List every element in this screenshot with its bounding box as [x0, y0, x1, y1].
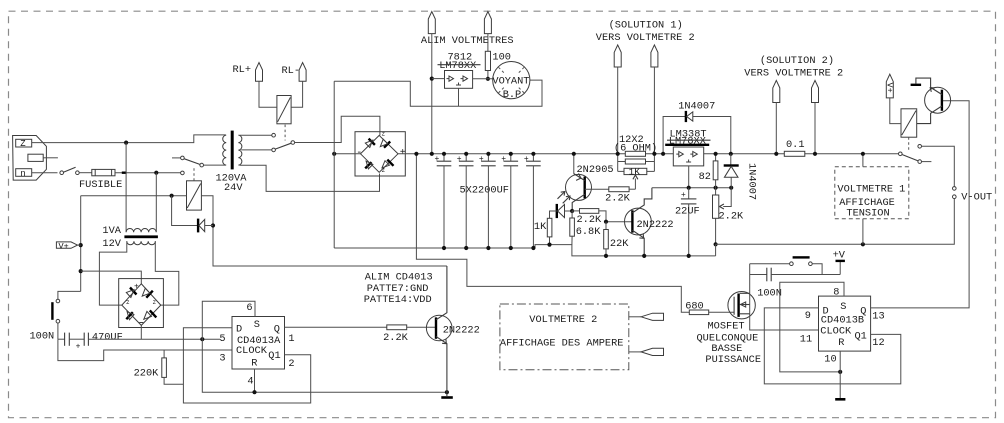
svg-text:+: + [479, 155, 484, 164]
svg-text:2N2905: 2N2905 [577, 164, 614, 176]
svg-text:470UF: 470UF [92, 331, 123, 343]
svg-text:CLOCK: CLOCK [236, 345, 268, 357]
svg-text:Z: Z [20, 139, 26, 149]
bridge rectifier BR1 [355, 130, 406, 176]
svg-text:TENSION: TENSION [846, 208, 889, 220]
svg-text:VOLTMETRE 2: VOLTMETRE 2 [529, 314, 597, 326]
svg-text:11: 11 [800, 333, 812, 345]
relay contact K2a [272, 133, 295, 151]
svg-text:220K: 220K [134, 368, 160, 380]
power tag +V [833, 250, 846, 275]
resistor 220K [134, 350, 184, 384]
svg-text:2.2K: 2.2K [383, 332, 409, 344]
svg-text:S: S [840, 301, 846, 313]
wire secondary bottom tap to bridge [240, 165, 380, 191]
svg-text:5X2200UF: 5X2200UF [460, 184, 509, 196]
svg-text:PUISSANCE: PUISSANCE [705, 354, 761, 366]
svg-text:13: 13 [872, 310, 884, 322]
svg-text:FUSIBLE: FUSIBLE [79, 179, 122, 191]
transistor Q1 2N2905 [566, 152, 614, 211]
capacitor C1 2200UF [435, 152, 452, 250]
wire secondary mid tap [241, 149, 272, 151]
wire relay coil right [201, 196, 447, 266]
svg-text:9: 9 [805, 310, 811, 322]
resistor 2.2K base Q5 [383, 325, 436, 344]
capacitor C5 2200UF [524, 152, 541, 250]
tag solution2 arrow a [773, 80, 780, 155]
svg-text:ALIM CD4013: ALIM CD4013 [365, 272, 433, 284]
svg-text:+: + [76, 343, 81, 352]
resistor 22K [604, 222, 630, 258]
svg-text:z: z [382, 130, 386, 137]
push button S2 [52, 291, 80, 339]
wire U1 D feedback [183, 328, 310, 403]
svg-text:(SOLUTION 2): (SOLUTION 2) [760, 55, 834, 67]
svg-text:2.2K: 2.2K [577, 214, 603, 226]
node line ADJ [652, 187, 731, 189]
relay coil K3 [901, 109, 917, 152]
transistor Q5 2N2222 [426, 266, 479, 396]
potentiometer 1K [618, 167, 655, 190]
resistor 2.2K to Q2 base [572, 209, 632, 227]
svg-text:10: 10 [824, 353, 836, 365]
diode D1 flyback [172, 196, 213, 233]
svg-text:2.2K: 2.2K [605, 192, 631, 204]
transistor Q4 MOSFET [697, 292, 762, 366]
svg-text:22UF: 22UF [675, 205, 700, 217]
push button S3 [750, 256, 822, 274]
wire vout minus line [716, 199, 955, 245]
svg-text:1VA: 1VA [102, 225, 121, 237]
wire mosfet vertical and clock pin11 [750, 264, 819, 330]
relay coil K2 RL [277, 96, 291, 124]
svg-text:0.1: 0.1 [786, 139, 805, 151]
relay contact K3a output switch [899, 145, 955, 187]
svg-text:ALIM VOLTMETRES: ALIM VOLTMETRES [421, 35, 514, 47]
tag alim arrow 2 [484, 12, 491, 52]
svg-text:6: 6 [246, 302, 252, 314]
text alim cd4013 [364, 272, 433, 307]
terminal V-OUT minus [953, 195, 957, 199]
svg-text:PATTE14:VDD: PATTE14:VDD [364, 294, 432, 306]
svg-text:Q1: Q1 [855, 331, 867, 343]
wire contact common to bridge top [295, 116, 380, 142]
svg-text:z: z [382, 167, 386, 174]
wire main plus rail [398, 153, 673, 155]
wire gate feed from rail [416, 154, 689, 312]
bridge rectifier BR2 [119, 279, 164, 328]
svg-text:8: 8 [833, 286, 839, 298]
svg-text:VOYANT: VOYANT [492, 76, 529, 88]
wire to fuse [79, 172, 92, 174]
potentiometer 2.2K adj [713, 188, 745, 256]
svg-text:+: + [524, 155, 529, 164]
tag voltmeter2 arrow b [629, 348, 664, 355]
wire U4 D feedback pin9 pin12 [764, 308, 901, 384]
capacitor C4 2200UF [501, 152, 518, 250]
svg-text:V-OUT: V-OUT [961, 192, 992, 204]
wire live from plug [32, 135, 226, 143]
svg-text:4: 4 [247, 375, 253, 387]
wire fuse to relay contact [115, 172, 181, 174]
svg-text:AFFICHAGE DES AMPERE: AFFICHAGE DES AMPERE [500, 337, 624, 349]
tag V+ output [884, 74, 901, 123]
svg-text:100N: 100N [30, 331, 55, 343]
capacitor C3 2200UF [479, 152, 496, 250]
resistor 1K led [534, 218, 552, 246]
wire relay coil left [81, 195, 187, 197]
svg-text:2N2222: 2N2222 [637, 219, 674, 231]
tag V+ [56, 241, 80, 251]
svg-text:n: n [20, 169, 25, 179]
svg-text:z: z [153, 299, 157, 306]
transistor Q6 pass [916, 78, 951, 124]
wire main ground rail [334, 245, 715, 256]
svg-text:VERS VOLTMETRE 2: VERS VOLTMETRE 2 [596, 32, 695, 44]
wire U1 set pin6 [202, 301, 447, 392]
LED D2 [550, 192, 575, 219]
svg-text:V+: V+ [59, 241, 69, 251]
node live/1VA junction [124, 141, 128, 145]
svg-text:MOSFET: MOSFET [708, 321, 745, 333]
wire U4 Q pin13 to base [871, 101, 970, 308]
lamp VOYANT B.P [492, 62, 529, 102]
regulator U3 LM338T [665, 128, 710, 187]
mains plug J1 [13, 136, 58, 181]
wire U1 reset pin4 [254, 369, 256, 392]
capacitor bank 5X2200UF [460, 184, 509, 196]
svg-text:RL+: RL+ [233, 64, 252, 76]
svg-text:Q: Q [274, 324, 280, 336]
capacitor C2 2200UF [457, 152, 474, 250]
diode D3 1N4007 bypass [661, 101, 733, 156]
svg-text:22K: 22K [610, 238, 629, 250]
svg-text:R: R [251, 357, 257, 369]
wire gnd net vertical and lamp return [333, 81, 335, 248]
svg-text:+: + [134, 283, 139, 292]
svg-text:12: 12 [872, 337, 884, 349]
svg-text:82: 82 [699, 171, 711, 183]
wire T2 secondary right to bridge2 [155, 241, 179, 305]
svg-text:1: 1 [288, 333, 294, 345]
svg-text:VERS VOLTMETRE 2: VERS VOLTMETRE 2 [744, 67, 843, 79]
ground U4 [835, 398, 845, 401]
ground Q5 [441, 396, 453, 399]
wire V+ vertical [80, 196, 82, 292]
tag solution1 arrow a [614, 45, 621, 154]
svg-text:Q1: Q1 [268, 350, 280, 362]
svg-text:+: + [501, 155, 506, 164]
svg-text:z: z [126, 299, 130, 306]
svg-text:VOLTMETRE 1: VOLTMETRE 1 [837, 183, 905, 195]
svg-text:2: 2 [288, 358, 294, 370]
svg-text:680: 680 [685, 301, 704, 313]
tag voltmeter2 arrow a [629, 313, 664, 320]
flip-flop U4 CD4013B [800, 286, 885, 365]
svg-text:PATTE7:GND: PATTE7:GND [367, 283, 429, 295]
wire minus corner to gnd vertical [334, 153, 360, 155]
resistor 6.8K [570, 211, 601, 245]
diode D4 1N4007 vertical [724, 154, 758, 200]
relay contact K1a [172, 125, 285, 175]
tag RL- [282, 63, 307, 108]
svg-text:RL-: RL- [282, 65, 301, 77]
svg-text:+: + [435, 155, 440, 164]
svg-text:B.P: B.P [503, 89, 522, 101]
resistor 2.2K base Q1 [605, 187, 635, 205]
wire clock feed [58, 339, 232, 360]
wire secondary top tap [240, 134, 272, 136]
transistor Q2 2N2222 [625, 188, 674, 258]
voltmeter 1 box [835, 167, 909, 220]
svg-text:1K: 1K [534, 221, 547, 233]
wire U4 reset pin10 [839, 351, 841, 398]
svg-text:R: R [838, 337, 844, 349]
fuse F1 FUSIBLE [79, 169, 122, 191]
svg-text:2.2K: 2.2K [719, 211, 745, 223]
tag solution2 arrow b [812, 80, 819, 155]
switch S1 mains [60, 167, 79, 174]
svg-text:(SOLUTION 1): (SOLUTION 1) [609, 19, 683, 31]
svg-text:1N4007: 1N4007 [678, 101, 715, 113]
wire contact to transformer primary [203, 164, 225, 166]
svg-text:V+: V+ [884, 83, 894, 93]
svg-text:S: S [254, 319, 260, 331]
wire neutral from plug [32, 172, 58, 174]
resistor bank 12X2 6 OHM shunt [614, 134, 657, 172]
chassis bar Q6 emitter [911, 84, 922, 86]
wire T2 secondary left to bridge2 [99, 241, 126, 305]
svg-text:+V: +V [833, 250, 846, 262]
resistor 0.1 shunt [784, 139, 805, 156]
svg-text:+: + [681, 191, 686, 200]
relay coil K1 [187, 168, 202, 211]
tag solution1 arrow b [651, 45, 658, 154]
flip-flop U1 CD4013A [219, 302, 294, 387]
capacitor 22UF [675, 188, 700, 258]
svg-text:5: 5 [219, 333, 225, 345]
node fuse/1VA junction [154, 171, 158, 175]
svg-text:12V: 12V [102, 238, 121, 250]
svg-text:6.8K: 6.8K [576, 226, 602, 238]
wire 1VA primary right drop [155, 173, 157, 232]
wire voltmeter1 leads [862, 154, 864, 167]
wire bridge2 minus down [140, 325, 142, 339]
svg-text:3: 3 [219, 352, 225, 364]
capacitor 100N clock [750, 268, 841, 300]
resistor 100 [485, 51, 511, 81]
svg-text:1N4007: 1N4007 [746, 163, 758, 200]
transformer T2 1VA 12V [102, 225, 157, 250]
voltmeter 2 box [500, 304, 629, 370]
wire bridge2 plus to V+ [81, 271, 142, 284]
transformer T1 120VA 24V [216, 131, 248, 194]
wire U1 Q pin1 [285, 326, 387, 328]
svg-text:2N2222: 2N2222 [443, 325, 480, 337]
capacitor 470UF [76, 331, 220, 351]
svg-text:+: + [457, 155, 462, 164]
tag alim arrow 1 [428, 12, 435, 156]
svg-text:24V: 24V [224, 182, 243, 194]
resistor 680 [685, 301, 734, 315]
svg-text:D: D [236, 324, 242, 336]
wire 1VA primary left drop [125, 143, 127, 232]
capacitor 100N input [30, 331, 85, 346]
wire U4 set pin8 [780, 282, 844, 372]
tag RL+ [233, 63, 277, 108]
terminal V-OUT plus [953, 187, 957, 191]
resistor 82 [699, 152, 718, 188]
svg-text:CLOCK: CLOCK [820, 325, 852, 337]
svg-text:100N: 100N [757, 287, 782, 299]
regulator U2 7812 [432, 52, 493, 107]
